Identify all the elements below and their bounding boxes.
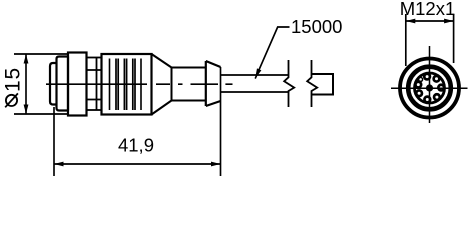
svg-text:M12x1: M12x1 xyxy=(400,0,456,19)
svg-text:41,9: 41,9 xyxy=(118,134,154,155)
svg-text:15: 15 xyxy=(2,67,25,92)
svg-text:15000: 15000 xyxy=(291,16,342,37)
